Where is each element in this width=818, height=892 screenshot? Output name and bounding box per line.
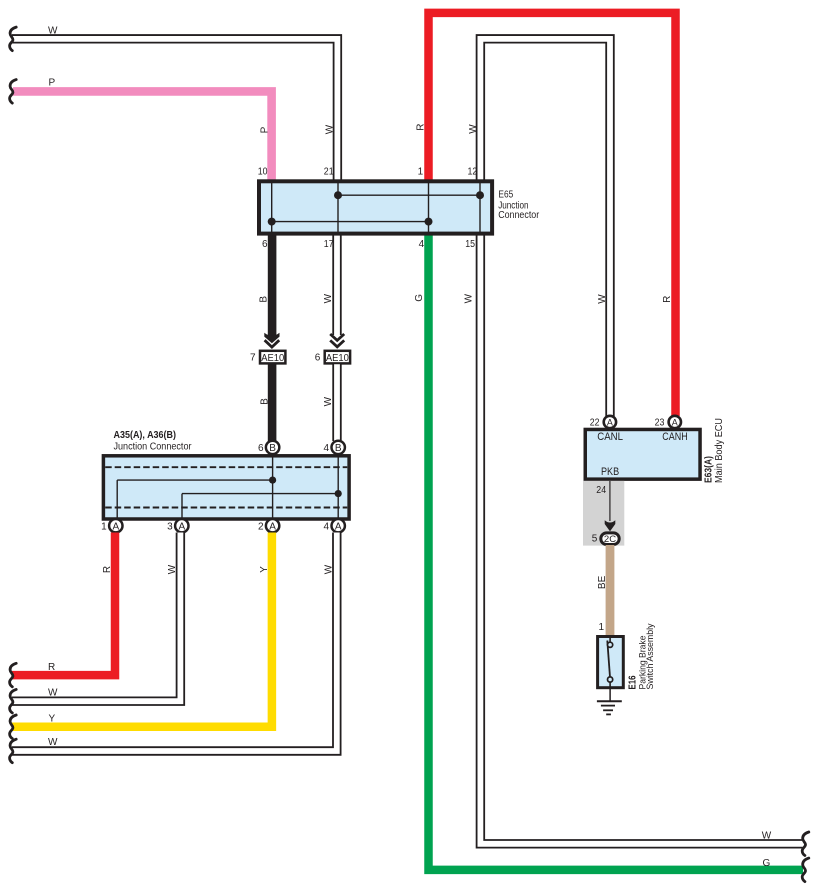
svg-text:CANH: CANH [662, 431, 687, 443]
pin 2(A) circle [258, 519, 279, 532]
arrowhead black wire [264, 333, 279, 347]
svg-text:A: A [269, 521, 276, 532]
break squiggle W left2 [10, 689, 17, 713]
svg-text:6: 6 [262, 239, 268, 250]
svg-text:1: 1 [418, 167, 424, 178]
svg-text:A: A [335, 521, 342, 532]
wire W lower-left2 (A35 pin 4A to left edge) [12, 533, 337, 752]
svg-text:R: R [102, 566, 113, 573]
svg-text:22: 22 [590, 418, 600, 429]
pin 6(B) circle [258, 441, 279, 454]
svg-text:R: R [48, 662, 55, 673]
svg-text:B: B [335, 443, 342, 454]
break squiggle W top-left [10, 27, 17, 50]
svg-text:W: W [48, 26, 58, 37]
wire W (AE10 to A35 pin 4B) [332, 364, 341, 441]
label A35(A), A36(B) Junction Connector [114, 430, 193, 452]
arrow chevrons white wire [330, 334, 344, 347]
junction dot E65 (21,upper) [334, 191, 342, 199]
svg-text:Y: Y [259, 566, 270, 573]
wire P pink (to E65 pin 10) [13, 91, 272, 180]
label R vertical right [662, 296, 673, 303]
wire W lower-left (A35 pin 3A to left edge) [12, 533, 180, 702]
svg-text:A: A [178, 521, 185, 532]
wire B black (E65 pin 6 down to AE10) [268, 235, 277, 336]
svg-text:15: 15 [465, 239, 475, 250]
svg-text:W: W [463, 293, 474, 303]
break squiggle R left [10, 663, 17, 687]
label E65 Junction Connector [498, 190, 540, 221]
junction dot A35 (6B column) [269, 477, 276, 484]
svg-text:Y: Y [49, 713, 56, 724]
wire G green (E65 pin 4 to bottom right) [429, 235, 804, 870]
label R vertical lower-left [102, 566, 113, 573]
svg-text:R: R [662, 296, 673, 303]
wire W (E65 pin 15 to bottom right) [480, 235, 802, 844]
svg-text:10: 10 [258, 167, 268, 178]
svg-text:A: A [112, 521, 119, 532]
label W vertical lower [323, 396, 334, 406]
pin 4(B) circle [324, 441, 345, 454]
svg-text:W: W [167, 564, 178, 574]
svg-text:7: 7 [250, 352, 256, 363]
junction connector E65 [259, 181, 492, 233]
svg-text:21: 21 [324, 167, 334, 178]
label B vertical lower [259, 398, 270, 405]
svg-text:PKB: PKB [601, 466, 619, 478]
label pin 1 E16 [598, 622, 604, 633]
wire PKB internal (pin 24 to 2C) [609, 481, 611, 521]
break squiggle W left3 [10, 739, 17, 763]
ground E16 [597, 689, 622, 714]
svg-text:Switch Assembly: Switch Assembly [645, 623, 655, 689]
pin 4(A) circle [324, 519, 345, 532]
svg-text:P: P [49, 77, 56, 88]
connector 5(2C) oval [592, 533, 619, 545]
label BE vertical [597, 575, 608, 589]
svg-text:G: G [763, 858, 771, 869]
svg-text:E65: E65 [498, 190, 513, 201]
svg-text:W: W [468, 124, 479, 134]
svg-text:24: 24 [596, 485, 606, 496]
label Y vertical [259, 566, 270, 573]
switch E16 Parking Brake Switch Assembly [598, 637, 624, 690]
label W vertical lower-left2 [323, 564, 334, 574]
svg-text:6: 6 [315, 352, 321, 363]
junction dot A35 (4B column) [335, 490, 342, 497]
svg-text:B: B [259, 296, 270, 303]
svg-text:AE10: AE10 [326, 353, 349, 364]
label G vertical [414, 294, 425, 302]
pin 22(A) circle [590, 416, 616, 429]
svg-text:2C: 2C [604, 534, 616, 545]
svg-text:W: W [48, 687, 58, 698]
label W vertical (CANL wire) [597, 294, 608, 304]
pin labels E65 top [258, 167, 478, 178]
wire W (E65 pin 17 down to AE10) [332, 235, 341, 335]
label Y horizontal left [49, 713, 56, 724]
svg-text:5: 5 [592, 533, 598, 544]
label 7 [250, 352, 256, 363]
svg-text:12: 12 [468, 167, 478, 178]
svg-text:1: 1 [101, 521, 107, 532]
svg-text:6: 6 [258, 443, 264, 454]
svg-text:Main Body ECU: Main Body ECU [714, 418, 725, 483]
svg-text:W: W [323, 564, 334, 574]
label W bottom right [762, 831, 772, 842]
wire BE beige (2C to E16 pin 1) [606, 545, 615, 636]
break squiggle G right [802, 858, 809, 882]
svg-text:W: W [325, 124, 336, 134]
svg-text:23: 23 [655, 418, 665, 429]
label W vertical (pin15) [463, 293, 474, 303]
label Parking Brake / Switch Assembly vertical [637, 623, 655, 689]
svg-text:AE10: AE10 [261, 353, 284, 364]
svg-text:W: W [323, 293, 334, 303]
svg-text:A35(A), A36(B): A35(A), A36(B) [114, 430, 177, 441]
svg-text:CANL: CANL [597, 431, 623, 443]
wire R red top (E65 pin 1 to E63 pin 23) [429, 13, 676, 416]
break squiggle P [10, 80, 17, 104]
pin 23(A) circle [655, 416, 681, 429]
svg-text:R: R [416, 124, 427, 131]
svg-text:4: 4 [324, 521, 330, 532]
label W vertical lower-left [167, 564, 178, 574]
wire B black (AE10 to A35 pin 6B) [268, 364, 277, 441]
label W vertical (pin17) [323, 293, 334, 303]
label R horizontal left [48, 662, 55, 673]
svg-text:Connector: Connector [498, 210, 540, 221]
label W top-left [48, 26, 58, 37]
svg-text:W: W [597, 294, 608, 304]
junction dot E65 (10,lower) [268, 218, 276, 226]
label R vertical upper [416, 124, 427, 131]
svg-text:A: A [672, 417, 678, 427]
break squiggle Y left [10, 715, 17, 739]
ECU E63(A) Main Body ECU [585, 429, 700, 479]
gray harness band below E63 [583, 481, 624, 546]
svg-text:17: 17 [324, 239, 334, 250]
label E63(A) vertical [704, 456, 715, 483]
pin 3(A) circle [167, 519, 188, 532]
pin 1(A) circle [101, 519, 122, 532]
arrowhead PKB [605, 520, 616, 531]
svg-text:E63(A): E63(A) [704, 456, 715, 483]
label P horizontal [49, 77, 56, 88]
label G bottom right [763, 858, 771, 869]
svg-text:P: P [260, 126, 271, 133]
label W vertical (pin21 above E65) [325, 124, 336, 134]
svg-text:BE: BE [597, 575, 608, 589]
svg-text:B: B [259, 398, 270, 405]
connector AE10 (pin 7) [260, 351, 285, 364]
svg-text:G: G [414, 294, 425, 302]
svg-text:A: A [607, 417, 613, 427]
break squiggle W right [802, 832, 809, 856]
svg-text:W: W [48, 737, 58, 748]
label P vertical [260, 126, 271, 133]
connector AE10 (pin 6) [325, 351, 350, 364]
pin labels E65 bottom [262, 239, 475, 250]
label B vertical upper [259, 296, 270, 303]
svg-text:W: W [323, 396, 334, 406]
wire Y yellow (A35 pin 2A to left edge) [12, 533, 272, 727]
svg-text:B: B [269, 443, 276, 454]
svg-text:W: W [762, 831, 772, 842]
svg-text:4: 4 [419, 239, 425, 250]
svg-text:3: 3 [167, 521, 173, 532]
label 6 [315, 352, 321, 363]
label E16 vertical [627, 675, 638, 689]
svg-text:4: 4 [324, 443, 330, 454]
label Main Body ECU vertical [714, 418, 725, 483]
junction dot E65 (1,lower) [425, 218, 433, 226]
label 24 [596, 485, 606, 496]
svg-text:2: 2 [258, 521, 264, 532]
svg-text:1: 1 [598, 622, 604, 633]
wire W top-left (to E65 pin 21) [12, 39, 337, 180]
label W horizontal left3 [48, 737, 58, 748]
junction connector A35(A),A36(B) box [103, 456, 349, 519]
svg-text:Junction Connector: Junction Connector [114, 441, 193, 452]
label W horizontal left2 [48, 687, 58, 698]
label W vertical (pin12) [468, 124, 479, 134]
wire W (E65 pin 12 to E63 pin 22 CANL) [480, 39, 610, 417]
wire R red lower-left (A35 pin 1A to left edge) [12, 533, 115, 676]
junction dot E65 (12,upper) [476, 191, 484, 199]
